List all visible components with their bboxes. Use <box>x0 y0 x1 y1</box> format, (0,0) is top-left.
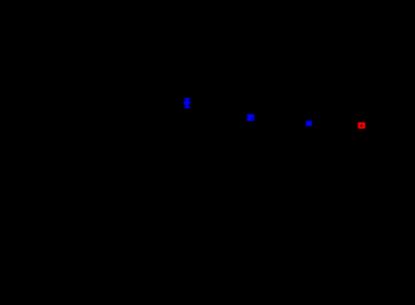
bond N2-C <box>254 118 278 126</box>
ring A (benzene) <box>120 105 164 156</box>
bond N1-C <box>201 120 224 128</box>
atom label O1 (red O) <box>358 122 365 129</box>
bond chain to N3 <box>278 123 303 126</box>
bond N3-C <box>313 123 336 130</box>
skeleton bonds (black on black, as in source transparent PNG) <box>120 105 405 156</box>
atom label N1/H (blue NH stacked) <box>184 98 191 108</box>
bond O1-C <box>366 125 390 132</box>
atom label N3 (blue N) <box>306 121 312 126</box>
ring B (pyrrole with NH) <box>164 110 201 147</box>
bond chain to O1 <box>336 125 356 130</box>
bond terminal methyl <box>390 120 405 132</box>
bond chain to N2 <box>224 118 247 120</box>
atom label N2 (blue N) <box>247 114 254 121</box>
